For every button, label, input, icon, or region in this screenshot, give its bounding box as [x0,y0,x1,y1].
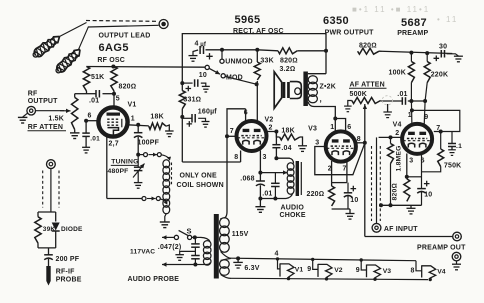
svg-text:RF ATTEN: RF ATTEN [28,124,63,131]
wire preamp horizontal [365,236,453,238]
svg-text:OUTPUT: OUTPUT [28,98,58,105]
bleed artifact top right [352,5,458,24]
wire osc top rail [86,66,205,69]
svg-text:8: 8 [357,136,361,143]
svg-text:820Ω: 820Ω [119,84,137,91]
node V2 grid [225,134,229,138]
node coil top line [136,153,140,157]
wire to V3 pin6 [335,119,345,132]
wire 51K to cap .01 [87,93,97,95]
wire 30 to ground [447,54,459,56]
svg-text:18K: 18K [281,127,294,134]
dashed shield right [379,146,381,221]
resistor 820ohm rail1 [278,48,297,54]
tube V2 5965 [237,121,267,151]
wire 6.3V top curve [221,258,231,260]
svg-text:.1: .1 [456,143,462,150]
resistor 820ohm V4 [404,179,410,202]
node pin1 loop [410,108,414,112]
wire rail 33K to 820 [257,50,278,51]
wire jack to gnd [456,261,458,264]
dashed ellipse artifact [382,96,392,105]
secondary 6.3V [220,260,230,269]
capacitor .1 [448,143,456,145]
wire mid tap gnd [180,251,196,254]
svg-text:480PF: 480PF [108,168,129,175]
wire 100PF to coil line [137,137,139,155]
connector AF INPUT [372,223,381,232]
wire 750K top [440,132,442,150]
heater V4 [416,261,436,281]
wire V2 pin3 stub [259,151,261,182]
wire V3 grid [315,143,365,175]
wire 39K stub bot [37,243,39,248]
wire xfmr top lead [308,73,326,75]
wire .01 stem [274,173,276,184]
svg-text:.01: .01 [89,98,99,105]
node pin1 V1 [136,123,140,127]
node .01 gnd line [273,197,277,201]
wire 750K bottom [422,167,441,172]
wire ground to 4uf [193,50,198,56]
plus 160uf [187,121,193,127]
wire cathode line right [107,198,142,200]
ground .01 cathode [82,146,90,148]
svg-text:.047(2): .047(2) [158,244,182,251]
node V3 pin8 [363,141,367,145]
output transformer core [303,72,308,107]
wire 10uf tap [182,82,192,84]
svg-text:7: 7 [343,165,347,172]
svg-text:2: 2 [395,130,399,137]
dashed probe shield left [42,171,44,208]
wire pin6 down to cap [85,121,87,133]
svg-text:V4: V4 [393,122,402,129]
heater V2 [311,258,332,281]
ground audio section [255,206,265,208]
svg-text:S: S [187,227,192,236]
capacitor 10uf V3 [344,192,352,194]
underline AF ATTEN [349,87,387,89]
wiper arrow RF ATTEN [60,110,71,112]
svg-text:AUDIO: AUDIO [281,205,305,212]
svg-text:AF ATTEN: AF ATTEN [350,82,385,89]
capacitor 30uf [440,50,442,58]
tube V1 grids [107,118,119,120]
ground plug-in coil [160,221,170,223]
wire pot right [381,100,403,102]
connector RF-IF probe plug [47,160,56,169]
dashed shield left [371,146,373,221]
wire pin1 drop [410,101,413,125]
speaker magnet [290,82,302,99]
resistor 220ohm V3 [329,186,335,206]
connector chassis jack [452,252,461,261]
wire 115V bottom curve [221,252,231,259]
svg-text:AF INPUT: AF INPUT [384,226,418,233]
svg-text:331Ω: 331Ω [183,97,201,104]
tube V1 plate bar [107,113,121,116]
svg-text:10: 10 [350,197,358,204]
wire diode bottom [55,232,57,248]
switch contact MOD [221,74,225,78]
svg-text:4: 4 [275,251,279,258]
svg-text:V2: V2 [265,117,274,124]
ground V3 cathode [349,209,351,214]
switch contact UNMOD [220,59,224,63]
capacitor .068 [256,180,265,182]
node pin9 top [423,99,427,103]
wire V4 gnd line [379,204,422,206]
resistor 33K [254,62,260,80]
svg-text:PREAMP: PREAMP [397,30,428,37]
ground 160uf [202,121,210,123]
heater rail bottom [231,278,428,279]
wire V3 cathode link [332,182,347,184]
svg-text:9: 9 [424,114,428,121]
wire pin7 loop [412,110,460,131]
probe tip RF-IF [46,266,50,281]
svg-text:OUTPUT LEAD: OUTPUT LEAD [99,33,151,40]
resistor 100K [408,62,414,83]
plug contact top A [144,153,148,157]
svg-text:6: 6 [347,124,351,131]
wire V3 cath bottom [332,208,350,210]
secondary 115V [220,218,230,228]
resistor 18K V1 [149,123,166,129]
connector output lead plug [159,20,168,29]
svg-text:6.3V: 6.3V [244,265,259,272]
inductor plug-in coil [163,160,170,168]
resistor 750K [438,149,444,167]
wire xfmr 115V top curve [224,212,227,218]
svg-text:,: , [320,95,322,104]
wire primary top curve [201,237,211,241]
svg-text:6350: 6350 [323,15,349,27]
alligator clip 1 [31,33,63,60]
capacitor 4uf [199,46,201,54]
switch S arm [179,230,189,235]
arrow 117VAC bottom [162,264,195,266]
wire switch to xfmr [192,236,201,238]
wire 6.3V bottom curve [221,275,231,279]
resistor 51K [83,67,89,92]
svg-text:6: 6 [88,113,92,120]
svg-text:220K: 220K [431,72,449,79]
arrow plug bottom [147,198,156,200]
wire cap .01 to pin5 node [103,93,115,95]
plus 4uf [206,53,212,59]
svg-text:6AG5: 6AG5 [99,42,129,54]
svg-text:30: 30 [439,43,447,50]
wire rail 4uf to unmod [206,49,258,51]
node 160uf tap [180,115,184,119]
wire V2 grid node down to xfmr [226,136,228,212]
svg-text:220Ω: 220Ω [307,191,325,198]
svg-text:1: 1 [330,124,334,131]
wire output lead dashed [86,20,157,23]
wire V2 pin8 stub [240,151,242,163]
node osc rail / plate [111,65,115,69]
wire pin9 drop [423,101,426,125]
svg-text:1.8MEG: 1.8MEG [395,145,402,171]
wire diode top [55,212,57,222]
ground 500K left [344,105,352,107]
wire 820 bottom to pin 5 [113,91,115,108]
resistor 18K V2 [280,134,300,140]
svg-text:UNMOD: UNMOD [225,59,252,66]
svg-text:39K: 39K [43,226,56,233]
svg-text:DIODE: DIODE [61,226,83,233]
svg-text:2: 2 [269,125,273,132]
arrowhead pot wiper [363,104,367,109]
node 33K top [255,48,259,52]
wire pin1 to 100PF [137,125,139,133]
wire preamp vertical [364,104,366,237]
speaker cone [274,72,282,109]
wire cap10 bottom [347,196,349,209]
ground .047 mid [175,254,184,256]
svg-text:8: 8 [411,268,415,275]
plug contact top B [157,153,161,157]
ground 18K V2 [298,145,307,147]
wire V3 pin7 stub [346,161,348,183]
svg-text:RF: RF [28,91,38,98]
plus 10uf mod [186,86,192,92]
wire cap .01 to ground [85,136,87,147]
wire choke bottom curve [286,194,293,199]
svg-text:• 11: • 11 [437,15,458,24]
wire probe center [50,169,52,212]
wire output lead solid [88,25,159,27]
wire V3 pin8 [356,142,365,144]
capacitor .01 cathode [82,132,90,134]
svg-text:3: 3 [409,158,413,165]
svg-text:PROBE: PROBE [56,277,82,284]
capacitor 160uf [191,114,193,123]
heater rail top [231,258,416,261]
wire to V3 pin1 [334,119,336,132]
wire cathode return [182,161,240,163]
wire to 200PF [48,248,50,255]
wire cap10 V4 bottom [421,192,423,206]
arrowhead into coil bottom [164,201,168,205]
svg-text:51K: 51K [91,74,104,81]
capacitor .01 grid [95,90,97,98]
resistor 820ohm rail2 [358,48,379,54]
node 6.3V gnd [236,256,240,260]
node unmod tap [220,48,224,52]
svg-text:2,7: 2,7 [109,141,119,148]
underline RF ATTEN [28,130,67,132]
node V3 plate [333,117,337,121]
resistor 39K [35,217,41,243]
svg-text:200 PF: 200 PF [56,256,80,263]
wire cap to grid node [408,100,425,102]
node 33K bottom [255,82,259,86]
wire diode box top [38,211,56,213]
tube V1 cathode [108,128,119,137]
wire cap B bottom [194,259,196,265]
heater V1 [276,257,294,280]
wire unmod drop [221,50,223,59]
plus 30uf [434,56,440,62]
wire cap .047 top stem [194,237,196,244]
node pin6 V1 [84,119,88,123]
wire cap mid [194,247,196,255]
underline TUNING [111,164,138,166]
svg-text:1.5K: 1.5K [48,116,64,123]
wire B+ top rail [182,34,326,91]
wire V3 pin2 stub [331,161,333,183]
wire pin1 V1 [128,125,149,126]
svg-text:33K: 33K [260,57,273,64]
svg-text:ONLY ONE: ONLY ONE [180,172,218,179]
node 750K top [439,130,443,134]
node shield gnd [379,203,383,207]
wire tuning cap bottom [137,171,139,183]
wire tuning cap top [137,155,139,168]
wire .04 bottom [275,148,277,159]
capacitor .047 A [191,243,200,245]
tube V1 6AG5 envelope [98,107,127,136]
wire 100K stub [410,53,412,62]
connector PREAMP OUT [453,232,462,241]
wire V2 grid [227,135,237,137]
wire 33K stub [256,50,258,62]
output transformer secondary coil [308,76,317,84]
svg-text:V4: V4 [437,269,446,276]
power transformer primary [203,241,211,248]
svg-text:V2: V2 [334,267,343,274]
wire .068 bottom [259,185,261,198]
node pin3 tap [258,171,262,175]
ground .1 cap [451,147,453,150]
svg-text:Z•2K: Z•2K [320,83,336,90]
wire V1 cathode down [106,137,108,199]
speaker driver [283,82,286,98]
wire cap10 V3 stem [347,183,349,193]
svg-text:µf: µf [200,42,207,48]
wire 39K stub top [37,212,39,217]
wire 18K V2 to ground [300,137,303,146]
wire 160uf tap [182,117,192,119]
node 100K top [409,51,413,55]
svg-text:3.2Ω: 3.2Ω [280,66,296,73]
dashed probe shield right [58,171,60,208]
wire plug to coil top [161,155,168,158]
wire RF OUTPUT to pot wiper [36,110,64,112]
wire to clip 2 [79,27,89,50]
wire V2 pin2 [267,132,280,138]
svg-text:TUNING: TUNING [111,159,138,166]
wire 100K down [410,83,412,101]
node 10uf tap [180,81,184,85]
core audio choke [296,161,299,196]
wire 220 V3 stub [331,183,333,186]
node .04 choke [274,156,278,160]
svg-text:CHOKE: CHOKE [280,212,306,219]
wire diode box bottom [38,247,56,249]
potentiometer 500K [352,98,381,104]
svg-text:100PF: 100PF [138,139,160,146]
node pin5 [112,92,116,96]
svg-text:5965: 5965 [235,14,261,26]
arrowhead into coil top [167,157,171,161]
connector RF OUTPUT jack [27,106,36,115]
resistor 331ohm [179,91,185,109]
capacitor .01 audio [271,182,280,184]
resistor 820ohm V1 plate [111,67,117,92]
wire pot top [75,93,87,95]
svg-text:1: 1 [131,116,135,123]
tube V4 5687 [402,124,432,154]
capacitor 200PF [44,254,53,256]
plug contact bottom A [142,197,146,201]
ground V4 cathode [410,205,412,208]
wire AF center [376,137,378,223]
resistor 220K [424,62,430,83]
node V4 grid [389,135,393,139]
ground tuning cap [134,182,143,184]
ground shield pot [387,104,389,112]
wire 1.8M down [390,164,392,206]
wire 115V top curve [220,218,223,221]
svg-text:.01: .01 [90,136,100,143]
ground 30uf [454,55,463,57]
wire primary bottom curve [207,263,211,265]
svg-text:V3: V3 [308,126,317,133]
ground 6.3V [237,258,239,262]
wire .1 stem [451,132,453,144]
svg-text:V1: V1 [128,102,137,109]
ground RF OUTPUT [18,116,28,118]
svg-text:.01: .01 [397,91,407,98]
capacitor .047 B [191,255,200,257]
wire jack to ground [23,113,28,117]
wire .01 bottom [274,187,276,199]
wire pin6 to grid node [227,109,246,137]
wire 220K down [425,83,427,101]
wire V4 grid [379,136,403,138]
svg-text:PREAMP OUT: PREAMP OUT [417,244,466,251]
arrow plug top [149,154,158,156]
arrow variable cap [133,164,145,178]
wire xfmr bottom lead [308,102,335,119]
ground 4uf [189,55,198,57]
capacitor 10uf V4 [417,188,426,190]
ground RF ATTEN pot [70,132,80,134]
wire to clip 1 [60,23,87,37]
svg-text:100K: 100K [389,70,407,77]
switch S contact A [174,235,178,239]
svg-text:117VAC: 117VAC [130,249,155,256]
svg-text:.068: .068 [240,175,254,182]
svg-text:750K: 750K [444,163,462,170]
svg-text:3: 3 [315,140,319,147]
diode D1 [52,223,60,231]
resistor 1.8MEG [388,144,394,164]
ground 18K V1 [165,130,174,132]
wire pot bottom [74,130,76,133]
arrow 117VAC top [162,236,174,238]
wire V4 cath link [407,176,422,178]
wire 18K to ground [166,125,169,131]
wire 220K stub [426,53,428,61]
capacitor .04 [272,144,280,146]
wire gnd line [260,198,286,200]
capacitor 100PF [134,132,143,134]
